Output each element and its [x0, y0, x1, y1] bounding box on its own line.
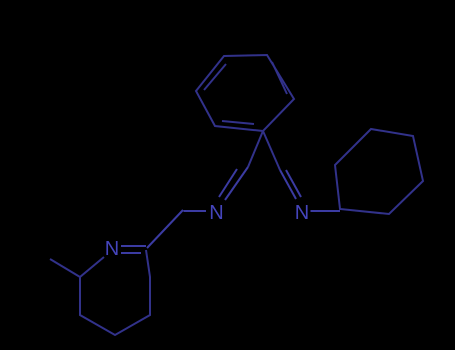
- methyl stub on pyridine: [50, 259, 80, 277]
- left N horizontal bond: [184, 210, 207, 212]
- right imine double bond C=N: [280, 170, 301, 199]
- left arm diagonal to pyridine C2: [147, 210, 183, 248]
- lambda legs: bonds from imine carbons up to ring: [248, 131, 280, 170]
- bottom-left ring: [80, 250, 150, 335]
- svg-text:N: N: [209, 202, 223, 224]
- top benzene ring: [196, 55, 294, 131]
- right ring: [335, 129, 423, 214]
- pyridine N=C2 double bond: [121, 246, 146, 253]
- svg-text:N: N: [295, 202, 309, 224]
- left imine double bond C=N: [219, 167, 248, 200]
- svg-text:N: N: [105, 238, 119, 260]
- right N horizontal bond: [311, 210, 341, 212]
